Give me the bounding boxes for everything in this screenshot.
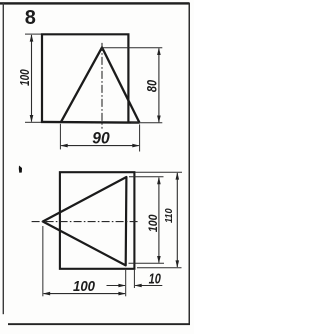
svg-text:10: 10 xyxy=(149,270,162,287)
svg-text:100: 100 xyxy=(19,69,32,86)
svg-text:8: 8 xyxy=(25,7,36,29)
svg-text:80: 80 xyxy=(144,80,159,92)
svg-text:100: 100 xyxy=(73,277,95,294)
svg-text:100: 100 xyxy=(148,214,161,232)
svg-text:90: 90 xyxy=(92,129,109,148)
svg-text:110: 110 xyxy=(163,208,175,223)
